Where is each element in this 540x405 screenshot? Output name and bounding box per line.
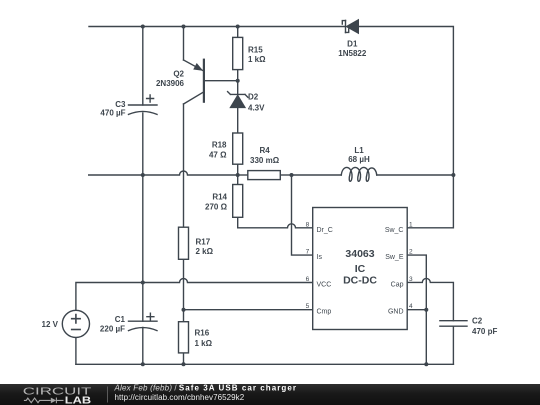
transistor Q2 (PNP 2N3906) <box>184 60 204 104</box>
logo resistor zigzag and diode <box>24 398 64 404</box>
node VCC rail / C1 top <box>141 281 145 285</box>
zener diode D2 <box>228 92 248 108</box>
wire right vertical from L1 node down to Sw_C corner <box>407 175 453 228</box>
wire top rail right of D1 to top-right corner down to node at L1 output <box>359 27 454 176</box>
wire middle rail from R18/R14 node to R4 <box>238 174 248 176</box>
svg-text:270 Ω: 270 Ω <box>205 203 228 212</box>
wire D2 anode to R18 top <box>237 108 239 133</box>
wire Is-node to L1 <box>292 174 342 176</box>
svg-text:R18: R18 <box>212 141 227 150</box>
svg-text:68 µH: 68 µH <box>348 155 370 164</box>
wire Q2 emitter vertical from top rail <box>183 27 185 61</box>
svg-text:2: 2 <box>409 249 413 256</box>
wire C1 bottom to bottom rail <box>142 328 144 365</box>
svg-text:Dr_C: Dr_C <box>317 227 333 234</box>
svg-text:Q2: Q2 <box>173 69 184 78</box>
logo diode triangle <box>51 398 56 404</box>
svg-text:http://circuitlab.com/cbnhev76: http://circuitlab.com/cbnhev76529k2 <box>115 393 245 402</box>
svg-text:R14: R14 <box>212 193 227 202</box>
wire bottom rail <box>76 363 454 365</box>
resistor R15 body <box>233 37 243 69</box>
svg-text:470 pF: 470 pF <box>472 327 497 336</box>
svg-text:1 kΩ: 1 kΩ <box>195 339 213 348</box>
wire Q2 collector vertical down to R17 (crosses middle+VCC rails) <box>183 104 185 227</box>
resistor R17 body <box>179 227 189 259</box>
svg-text:1: 1 <box>409 221 413 228</box>
svg-text:1 kΩ: 1 kΩ <box>248 55 266 64</box>
wire middle rail left segment with hop over collector line <box>89 171 238 175</box>
node middle rail / right vertical <box>451 173 455 177</box>
wire Is-node down then right to Is pin <box>292 175 313 255</box>
node bottom rail / R16 <box>182 362 186 366</box>
svg-text:470 µF: 470 µF <box>100 109 125 118</box>
wire R16 bottom to bottom rail <box>183 353 185 364</box>
wire L1 right end to right vertical <box>377 174 454 176</box>
capacitor C1 plates <box>129 313 158 330</box>
resistor R14 body <box>233 185 243 218</box>
wire R14 bottom then right to Dr_C pin with hop over Is line <box>238 217 313 228</box>
svg-text:2N3906: 2N3906 <box>156 79 185 88</box>
wire R15 bottom to base node <box>237 70 239 81</box>
wire GND pin to GND node <box>407 309 426 311</box>
svg-text:Cmp: Cmp <box>317 309 332 316</box>
svg-text:C2: C2 <box>472 317 483 326</box>
svg-text:47 Ω: 47 Ω <box>209 151 227 160</box>
op-amp/IC U1 34063 box <box>313 208 408 330</box>
svg-text:DC-DC: DC-DC <box>343 275 377 287</box>
wire Cap pin right with hop over GND line then down to C2 <box>407 278 453 320</box>
svg-text:GND: GND <box>388 309 404 316</box>
wire R15 stub from top rail <box>237 27 239 38</box>
svg-text:12 V: 12 V <box>42 320 59 329</box>
svg-text:220 µF: 220 µF <box>100 325 125 334</box>
voltage source V1 12V circle <box>62 310 89 337</box>
wire Cmp node to R16 top <box>183 310 185 322</box>
node Cmp / R17-R16 <box>182 308 186 312</box>
svg-text:LAB: LAB <box>65 395 91 405</box>
wire Q2 base to base node <box>204 80 238 82</box>
capacitor C2 plates <box>440 321 467 327</box>
node top rail / R15 <box>236 25 240 29</box>
svg-text:Sw_C: Sw_C <box>385 227 404 234</box>
svg-text:6: 6 <box>306 276 310 283</box>
footer separator line <box>107 387 109 403</box>
wire middle rail to R14 top <box>237 175 239 185</box>
wire middle rail to C1 top plate (dot at VCC rail) <box>142 175 144 321</box>
resistor R16 body <box>179 322 189 353</box>
wire C3/C1 vertical: top rail to C3 <box>142 27 144 106</box>
diode D1 (schottky) <box>342 20 358 34</box>
node middle rail / R18-R14 <box>236 173 240 177</box>
wire top rail left of D1 <box>89 26 345 28</box>
node top rail / C3 <box>141 25 145 29</box>
wire Sw_E pin right then down to GND node and bottom rail <box>407 255 426 364</box>
node top rail / Q2 emitter <box>182 25 186 29</box>
wire R4 to Is-node <box>280 174 291 176</box>
wire base node to D2 cathode <box>237 81 239 94</box>
svg-text:D1: D1 <box>347 40 358 49</box>
svg-text:4.3V: 4.3V <box>248 104 265 113</box>
node middle rail / C3-C1 line <box>141 173 145 177</box>
svg-text:330 mΩ: 330 mΩ <box>250 156 280 165</box>
resistor R4 body (horizontal) <box>248 171 280 180</box>
wire VCC rail from 12V source top to VCC pin with hop over R17 line <box>76 279 313 311</box>
wire 12V source bottom to bottom rail <box>75 338 77 365</box>
svg-text:VCC: VCC <box>317 281 332 288</box>
node bottom rail / GND line <box>424 362 428 366</box>
svg-text:IC: IC <box>355 263 366 275</box>
svg-text:4: 4 <box>409 303 413 310</box>
wire R18 bottom to middle rail <box>237 164 239 175</box>
svg-text:2 kΩ: 2 kΩ <box>196 247 214 256</box>
resistor R18 body <box>233 133 243 164</box>
wire C2 bottom to bottom rail <box>452 326 454 364</box>
svg-text:3: 3 <box>409 276 413 283</box>
svg-text:1N5822: 1N5822 <box>338 49 367 58</box>
svg-text:Cap: Cap <box>391 281 404 288</box>
wire R17 bottom to Cmp node <box>183 259 185 309</box>
node bottom rail / C1 <box>141 362 145 366</box>
wire Cmp node to Cmp pin <box>184 309 313 311</box>
svg-text:D2: D2 <box>248 93 259 102</box>
svg-text:Sw_E: Sw_E <box>385 254 404 261</box>
wire C3 bottom to middle rail <box>142 113 144 175</box>
svg-text:C1: C1 <box>115 315 126 324</box>
svg-text:Alex Feb (febb) / Safe 3A USB: Alex Feb (febb) / Safe 3A USB car charge… <box>114 384 298 393</box>
svg-text:7: 7 <box>306 249 310 256</box>
svg-text:5: 5 <box>306 303 310 310</box>
svg-text:L1: L1 <box>354 146 364 155</box>
node Q2 base / R15-D2 <box>236 79 240 83</box>
svg-text:R15: R15 <box>248 45 263 54</box>
svg-text:Is: Is <box>317 254 323 261</box>
svg-text:C3: C3 <box>115 100 126 109</box>
svg-text:R16: R16 <box>195 328 210 337</box>
svg-text:8: 8 <box>306 221 310 228</box>
node GND pin / Sw_E line <box>424 308 428 312</box>
svg-text:R17: R17 <box>196 238 211 247</box>
inductor L1 coil <box>341 167 376 181</box>
svg-text:34063: 34063 <box>345 248 374 260</box>
node middle rail / Is branch <box>290 173 294 177</box>
capacitor C3 plates <box>129 95 158 114</box>
svg-text:R4: R4 <box>259 146 270 155</box>
